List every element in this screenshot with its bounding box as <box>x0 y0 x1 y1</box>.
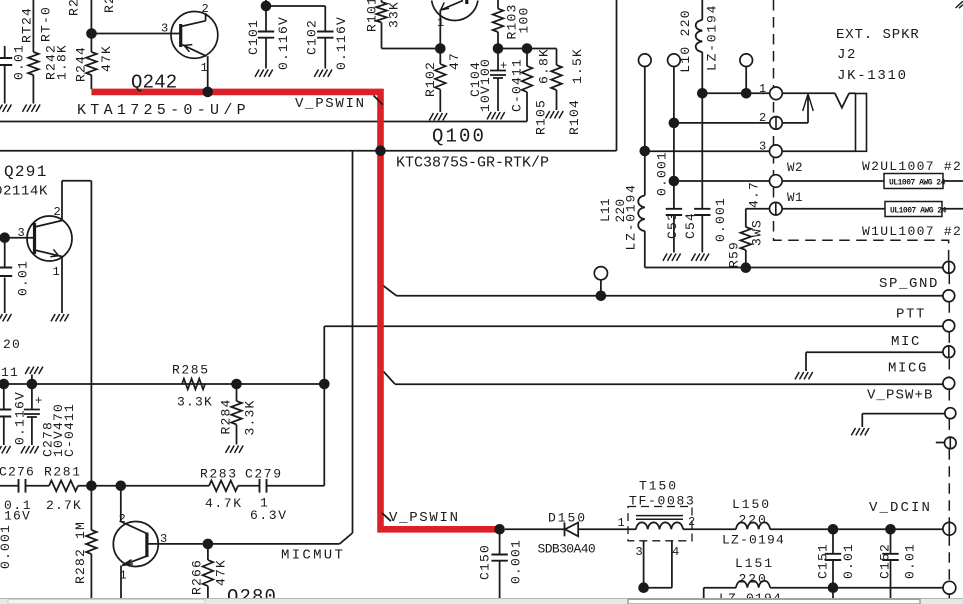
svg-text:V_PSWIN: V_PSWIN <box>295 96 366 112</box>
svg-text:0.01: 0.01 <box>903 543 918 579</box>
svg-text:R2: R2 <box>102 0 117 13</box>
svg-text:3WS: 3WS <box>750 219 765 246</box>
svg-text:LZ-0194: LZ-0194 <box>624 183 639 250</box>
svg-text:2: 2 <box>119 512 126 526</box>
svg-text:C279: C279 <box>245 467 283 482</box>
svg-text:L10 220: L10 220 <box>678 9 693 73</box>
svg-text:16V: 16V <box>4 509 31 524</box>
svg-text:C150: C150 <box>478 544 493 580</box>
svg-text:C-0411: C-0411 <box>510 58 525 112</box>
svg-text:1: 1 <box>201 61 208 75</box>
svg-text:JK-1310: JK-1310 <box>837 68 908 84</box>
svg-text:C102: C102 <box>305 19 320 55</box>
svg-text:47: 47 <box>447 52 462 70</box>
svg-text:C152: C152 <box>878 543 893 579</box>
svg-text:1: 1 <box>120 569 127 583</box>
svg-text:100: 100 <box>517 6 532 33</box>
svg-text:J2: J2 <box>837 47 857 63</box>
svg-text:33K: 33K <box>387 1 402 28</box>
svg-text:R105: R105 <box>534 99 549 135</box>
svg-text:6.3V: 6.3V <box>250 508 288 523</box>
svg-text:W2UL1007 #2: W2UL1007 #2 <box>862 159 962 174</box>
svg-text:KTC3875S-GR-RTK/P: KTC3875S-GR-RTK/P <box>396 155 549 172</box>
svg-text:W1UL1007 #2: W1UL1007 #2 <box>862 224 962 239</box>
svg-text:C276: C276 <box>0 465 35 480</box>
svg-text:PTT: PTT <box>896 307 926 323</box>
svg-text:+: + <box>35 394 42 408</box>
svg-text:R281: R281 <box>44 465 82 480</box>
svg-text:0.116V: 0.116V <box>13 391 28 445</box>
svg-text:L150: L150 <box>732 497 771 512</box>
svg-text:Q291: Q291 <box>4 163 48 181</box>
svg-text:R283: R283 <box>200 467 238 482</box>
svg-text:MIC: MIC <box>891 334 921 350</box>
svg-text:4: 4 <box>672 545 679 559</box>
svg-text:KTA1725-0-U/P: KTA1725-0-U/P <box>77 102 250 119</box>
svg-text:V_PSW+B: V_PSW+B <box>867 388 934 404</box>
svg-text:2.7K: 2.7K <box>46 498 82 513</box>
svg-text:3.3K: 3.3K <box>243 399 258 435</box>
svg-text:R285: R285 <box>172 363 210 378</box>
svg-text:0.116V: 0.116V <box>276 16 291 70</box>
svg-text:20: 20 <box>3 337 21 352</box>
svg-text:L11: L11 <box>599 198 613 222</box>
svg-text:R282 1M: R282 1M <box>73 521 88 584</box>
svg-text:C53: C53 <box>665 212 680 239</box>
svg-text:V_PSWIN: V_PSWIN <box>389 510 460 526</box>
svg-text:1.5K: 1.5K <box>570 48 585 84</box>
svg-text:0.01: 0.01 <box>16 260 31 296</box>
svg-text:3: 3 <box>18 226 25 240</box>
svg-text:W2: W2 <box>787 161 803 175</box>
svg-text:V_DCIN: V_DCIN <box>869 500 932 516</box>
svg-text:C101: C101 <box>246 19 261 55</box>
svg-text:0.001: 0.001 <box>0 524 13 569</box>
svg-text:0.116V: 0.116V <box>334 16 349 70</box>
svg-text:47K: 47K <box>214 559 229 586</box>
svg-text:0.001: 0.001 <box>655 151 670 196</box>
svg-text:D150: D150 <box>548 511 587 526</box>
svg-text:0.01: 0.01 <box>841 543 856 579</box>
svg-text:3: 3 <box>161 22 168 36</box>
svg-text:RT24: RT24 <box>20 7 35 43</box>
svg-text:R101: R101 <box>365 0 380 32</box>
svg-text:2: 2 <box>202 2 209 16</box>
svg-text:TF-0083: TF-0083 <box>629 494 696 509</box>
svg-text:MICG: MICG <box>888 361 928 377</box>
svg-text:0.001: 0.001 <box>713 197 728 242</box>
svg-text:R102: R102 <box>423 61 438 97</box>
svg-text:Q100: Q100 <box>432 126 486 148</box>
svg-text:C-0411: C-0411 <box>62 403 77 457</box>
svg-text:LZ-0194: LZ-0194 <box>722 533 785 548</box>
svg-text:UL1007 AWG 24: UL1007 AWG 24 <box>890 207 947 216</box>
svg-text:3: 3 <box>636 545 643 559</box>
svg-text:4.7K: 4.7K <box>205 496 243 511</box>
svg-text:3: 3 <box>160 532 167 546</box>
svg-text:4.7: 4.7 <box>747 181 762 208</box>
svg-text:R266: R266 <box>190 559 205 595</box>
svg-text:R104: R104 <box>567 99 582 135</box>
svg-text:Q242: Q242 <box>131 72 177 94</box>
svg-text:10V100: 10V100 <box>478 58 493 112</box>
svg-text:UL1007 AWG 24: UL1007 AWG 24 <box>889 179 946 188</box>
svg-text:C54: C54 <box>683 212 698 239</box>
svg-text:+: + <box>500 59 507 73</box>
svg-text:6.8K: 6.8K <box>537 48 552 84</box>
svg-text:L151: L151 <box>735 556 774 571</box>
svg-text:SP_GND: SP_GND <box>879 276 939 292</box>
svg-text:R244: R244 <box>74 46 89 82</box>
svg-text:1.8K: 1.8K <box>55 44 70 80</box>
svg-text:3.3K: 3.3K <box>177 395 213 410</box>
svg-text:47K: 47K <box>99 45 114 72</box>
svg-text:D2114K: D2114K <box>0 184 48 200</box>
svg-text:2: 2 <box>759 111 766 125</box>
svg-text:SDB30A40: SDB30A40 <box>538 541 596 556</box>
svg-text:1: 1 <box>437 16 444 30</box>
svg-text:R2: R2 <box>67 0 82 16</box>
svg-text:MICMUT: MICMUT <box>281 548 345 564</box>
svg-text:C151: C151 <box>816 543 831 579</box>
svg-text:LZ-0194: LZ-0194 <box>705 4 720 71</box>
svg-text:220: 220 <box>739 512 768 527</box>
svg-text:R59: R59 <box>727 241 742 268</box>
svg-text:2: 2 <box>688 515 695 529</box>
svg-text:R284: R284 <box>219 398 234 434</box>
svg-text:RT-0: RT-0 <box>39 6 54 42</box>
svg-text:1: 1 <box>759 82 766 96</box>
svg-text:EXT. SPKR: EXT. SPKR <box>836 27 920 43</box>
svg-text:W1: W1 <box>787 191 803 205</box>
svg-text:T150: T150 <box>639 479 678 494</box>
svg-text:11: 11 <box>1 365 19 380</box>
svg-text:1: 1 <box>618 516 625 530</box>
svg-text:0.001: 0.001 <box>509 539 524 584</box>
svg-text:2: 2 <box>54 205 61 219</box>
svg-text:3: 3 <box>759 140 766 154</box>
svg-text:1: 1 <box>53 265 60 279</box>
svg-text:0.01: 0.01 <box>12 44 27 80</box>
svg-text:220: 220 <box>739 571 768 586</box>
